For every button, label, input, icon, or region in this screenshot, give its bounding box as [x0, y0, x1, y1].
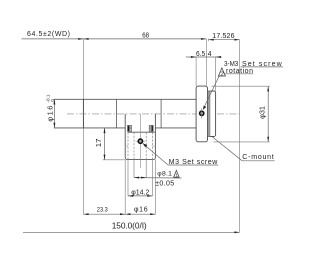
arrow 17.526 right [234, 39, 239, 41]
arrow 150 right [234, 231, 239, 233]
svg-text:φ8.1: φ8.1 [157, 171, 172, 178]
dimension 17.526 line [209, 39, 240, 41]
arrow phi31 down [267, 137, 269, 142]
arrow 68 left [83, 38, 88, 40]
extension phi8.1 right below block [145, 160, 147, 178]
hidden stub right [153, 145, 156, 147]
svg-text:φ14.2: φ14.2 [131, 189, 149, 196]
svg-text:0: 0 [50, 99, 55, 102]
svg-text:4: 4 [208, 51, 212, 58]
dimension line 150.0 [23, 231, 240, 233]
barrel left face [82, 99, 84, 128]
arrow 17.526 left [209, 39, 214, 41]
svg-text:M3 Set screw: M3 Set screw [169, 159, 219, 166]
barrel bottom edge left [54, 127, 125, 129]
C-mount underline [242, 160, 275, 162]
barrel top edge [54, 98, 196, 100]
arrow 23.3 right [120, 213, 125, 215]
extension phi14.2 left below block [127, 160, 129, 196]
arrow 6.5 outside left [191, 56, 196, 58]
right notch screw [149, 125, 153, 131]
hidden bore phi14.2 left [127, 132, 129, 159]
extension phi8.1 left below block [133, 160, 135, 178]
svg-text:17.526: 17.526 [212, 33, 234, 40]
arrow phi8.1 left [134, 177, 139, 179]
flange set screw circle [200, 111, 204, 115]
hidden bore phi8.1 right [145, 132, 147, 159]
hidden bore phi8.1 left [133, 132, 135, 159]
thread relief band [208, 91, 211, 137]
arrow phi31 up [267, 86, 269, 91]
arrow phi16b right [150, 213, 155, 215]
hidden stub left [125, 145, 128, 147]
arrow phi14.2 right [147, 195, 152, 197]
svg-text:-0.1: -0.1 [46, 94, 51, 102]
rotation leader line [203, 74, 226, 110]
phi16 dimension line left [53, 99, 55, 128]
hole center horizontal tick [136, 140, 146, 142]
flange screw tick [201, 109, 203, 119]
M3 underline [168, 164, 218, 166]
hidden bore phi14.2 right [152, 132, 154, 159]
warning triangle 1 [174, 170, 179, 177]
svg-text:17: 17 [94, 139, 103, 148]
phi14.2 dimension line [128, 195, 153, 197]
revision triangle 2 [218, 68, 225, 76]
svg-text:1: 1 [175, 173, 178, 178]
extension phi14.2 right below block [152, 160, 154, 196]
phi31 extension bottom [214, 141, 270, 143]
svg-text:Set screw: Set screw [242, 61, 283, 68]
center line axis [67, 113, 241, 115]
svg-text:150.0(0/I): 150.0(0/I) [112, 220, 147, 230]
barrel section line x=161.4 [160, 99, 162, 128]
barrel section line x=117.4 [116, 99, 118, 128]
C-mount leader [212, 137, 242, 161]
arrow phi14.2 left [128, 195, 133, 197]
clamp block left edge [125, 114, 127, 160]
svg-text:6.5: 6.5 [196, 51, 205, 58]
vertical hole center line [139, 114, 141, 168]
svg-text:φ16: φ16 [134, 207, 148, 214]
M3 leader arrowhead [143, 143, 148, 147]
phi31 dimension line [267, 86, 269, 142]
extension 17 bottom [103, 159, 126, 161]
C-mount thread body [210, 91, 215, 137]
image plane extension x=239.6 [239, 40, 241, 233]
clamp step line [128, 131, 156, 133]
left notch screw [128, 125, 132, 131]
extension line lens front x=83.4 [82, 39, 84, 214]
arrow phi16 down [53, 123, 55, 128]
svg-text:±0.05: ±0.05 [155, 180, 174, 187]
phi8.1 dimension line [134, 177, 182, 179]
arrow 17 up [104, 128, 106, 133]
phi31 extension top [212, 85, 270, 87]
extension line x=196.1 upper [195, 57, 197, 86]
arrow phi16 up [53, 99, 55, 104]
svg-text:64.5±2(WD): 64.5±2(WD) [27, 31, 70, 38]
svg-text:φ31: φ31 [257, 106, 266, 119]
svg-text:68: 68 [142, 33, 149, 40]
rotation leader arrowhead [203, 106, 206, 110]
set screw circle on block [138, 139, 142, 143]
dimension 17 line [104, 128, 106, 160]
extension line x=215.4 upper [215, 57, 217, 91]
underline set screw [241, 66, 283, 68]
arrow 17 down [104, 155, 106, 160]
dimension 6.5 / 4 line [186, 56, 222, 58]
svg-text:2: 2 [220, 71, 224, 78]
arrow WD right [78, 38, 83, 40]
dimension line 23.3 and phi16 bottom [83, 213, 155, 215]
extension phi16 right below block [154, 160, 156, 215]
svg-text:23.3: 23.3 [97, 207, 108, 214]
arrow phi8.1 right [141, 177, 146, 179]
extension line x=208.5 [208, 39, 210, 42]
extension line x=206 [205, 39, 207, 86]
arrow 4 outside right [216, 56, 221, 58]
underline rotation [226, 73, 254, 75]
arrow 23.3 left [83, 213, 88, 215]
clamp block bottom edge [127, 159, 153, 161]
svg-text:C-mount: C-mount [242, 154, 274, 161]
arrow 68 right [201, 38, 206, 40]
svg-text:rotation: rotation [226, 68, 253, 75]
extension phi16 left below block [124, 160, 126, 215]
barrel bottom edge right [155, 127, 196, 129]
dimension line top WD and 68 [22, 38, 207, 40]
svg-text:φ16: φ16 [46, 106, 55, 122]
flange ring phi31 [196, 86, 207, 142]
clamp block right edge [153, 114, 155, 160]
M3 leader line [143, 143, 168, 165]
arrow phi16b left [125, 213, 130, 215]
